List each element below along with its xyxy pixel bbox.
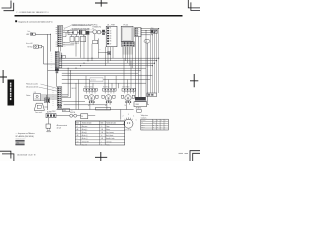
svg-text:HB: HB (101, 138, 103, 140)
svg-text:Café / gris: Café / gris (106, 141, 112, 143)
svg-text:SEC 1: SEC 1 (141, 124, 145, 126)
svg-text:G10: G10 (63, 46, 65, 48)
svg-text:GB: GB (101, 129, 103, 131)
svg-text:Blanco: Blanco (106, 129, 110, 131)
svg-text:FUSIBLE (F1): FUSIBLE (F1) (93, 27, 102, 29)
svg-text:C: C (77, 138, 78, 140)
svg-text:Mecanismo del CD: Mecanismo del CD (26, 87, 39, 89)
svg-text:D: D (77, 144, 78, 146)
svg-text:Cable: Cable (27, 31, 30, 33)
svg-text:Simb: Simb (101, 123, 104, 125)
svg-text:Negro: Negro (106, 126, 110, 128)
svg-text:M: M (105, 105, 106, 107)
svg-text:GR: GR (101, 132, 103, 134)
svg-text:SEC 2: SEC 2 (141, 127, 145, 129)
svg-text:13P: 13P (71, 110, 73, 112)
svg-text:Diagrama de conexiones del tab: Diagrama de conexiones del tablero (120 … (18, 20, 52, 23)
svg-text:K1: K1 (69, 33, 71, 35)
svg-text:HTR: HTR (141, 129, 143, 131)
svg-text:BR: BR (77, 135, 79, 137)
svg-text:— Impreso en México: — Impreso en México (15, 132, 35, 135)
svg-text:7 – CONEXIONES DEL TABLERO PC-: 7 – CONEXIONES DEL TABLERO PC-1 (16, 11, 48, 14)
svg-text:Simb: Simb (76, 123, 79, 125)
svg-text:M: M (88, 105, 89, 107)
svg-text:FIL: FIL (81, 116, 83, 118)
svg-text:M: M (125, 105, 126, 107)
svg-text:Cass. mech.: Cass. mech. (35, 112, 43, 114)
svg-text:PW-1: PW-1 (63, 110, 66, 112)
svg-text:Nombre del cable: Nombre del cable (106, 123, 116, 125)
svg-text:CN202: CN202 (52, 111, 56, 113)
svg-text:Rojo / anaranj.: Rojo / anaranj. (106, 132, 114, 134)
svg-text:AV-20D304A · 01-08 · M: AV-20D304A · 01-08 · M (17, 154, 35, 157)
svg-text:FM 75Ω: FM 75Ω (28, 46, 33, 48)
svg-text:Nombre del cable: Nombre del cable (82, 123, 92, 125)
svg-text:CN601: CN601 (135, 104, 139, 106)
svg-text:H: H (101, 135, 102, 137)
svg-text:G: G (101, 126, 102, 128)
svg-text:XP-A3050 (MV·E304): XP-A3050 (MV·E304) (15, 135, 34, 138)
svg-text:SW301 PW-22: SW301 PW-22 (70, 43, 79, 45)
svg-text:CB: CB (77, 141, 79, 143)
